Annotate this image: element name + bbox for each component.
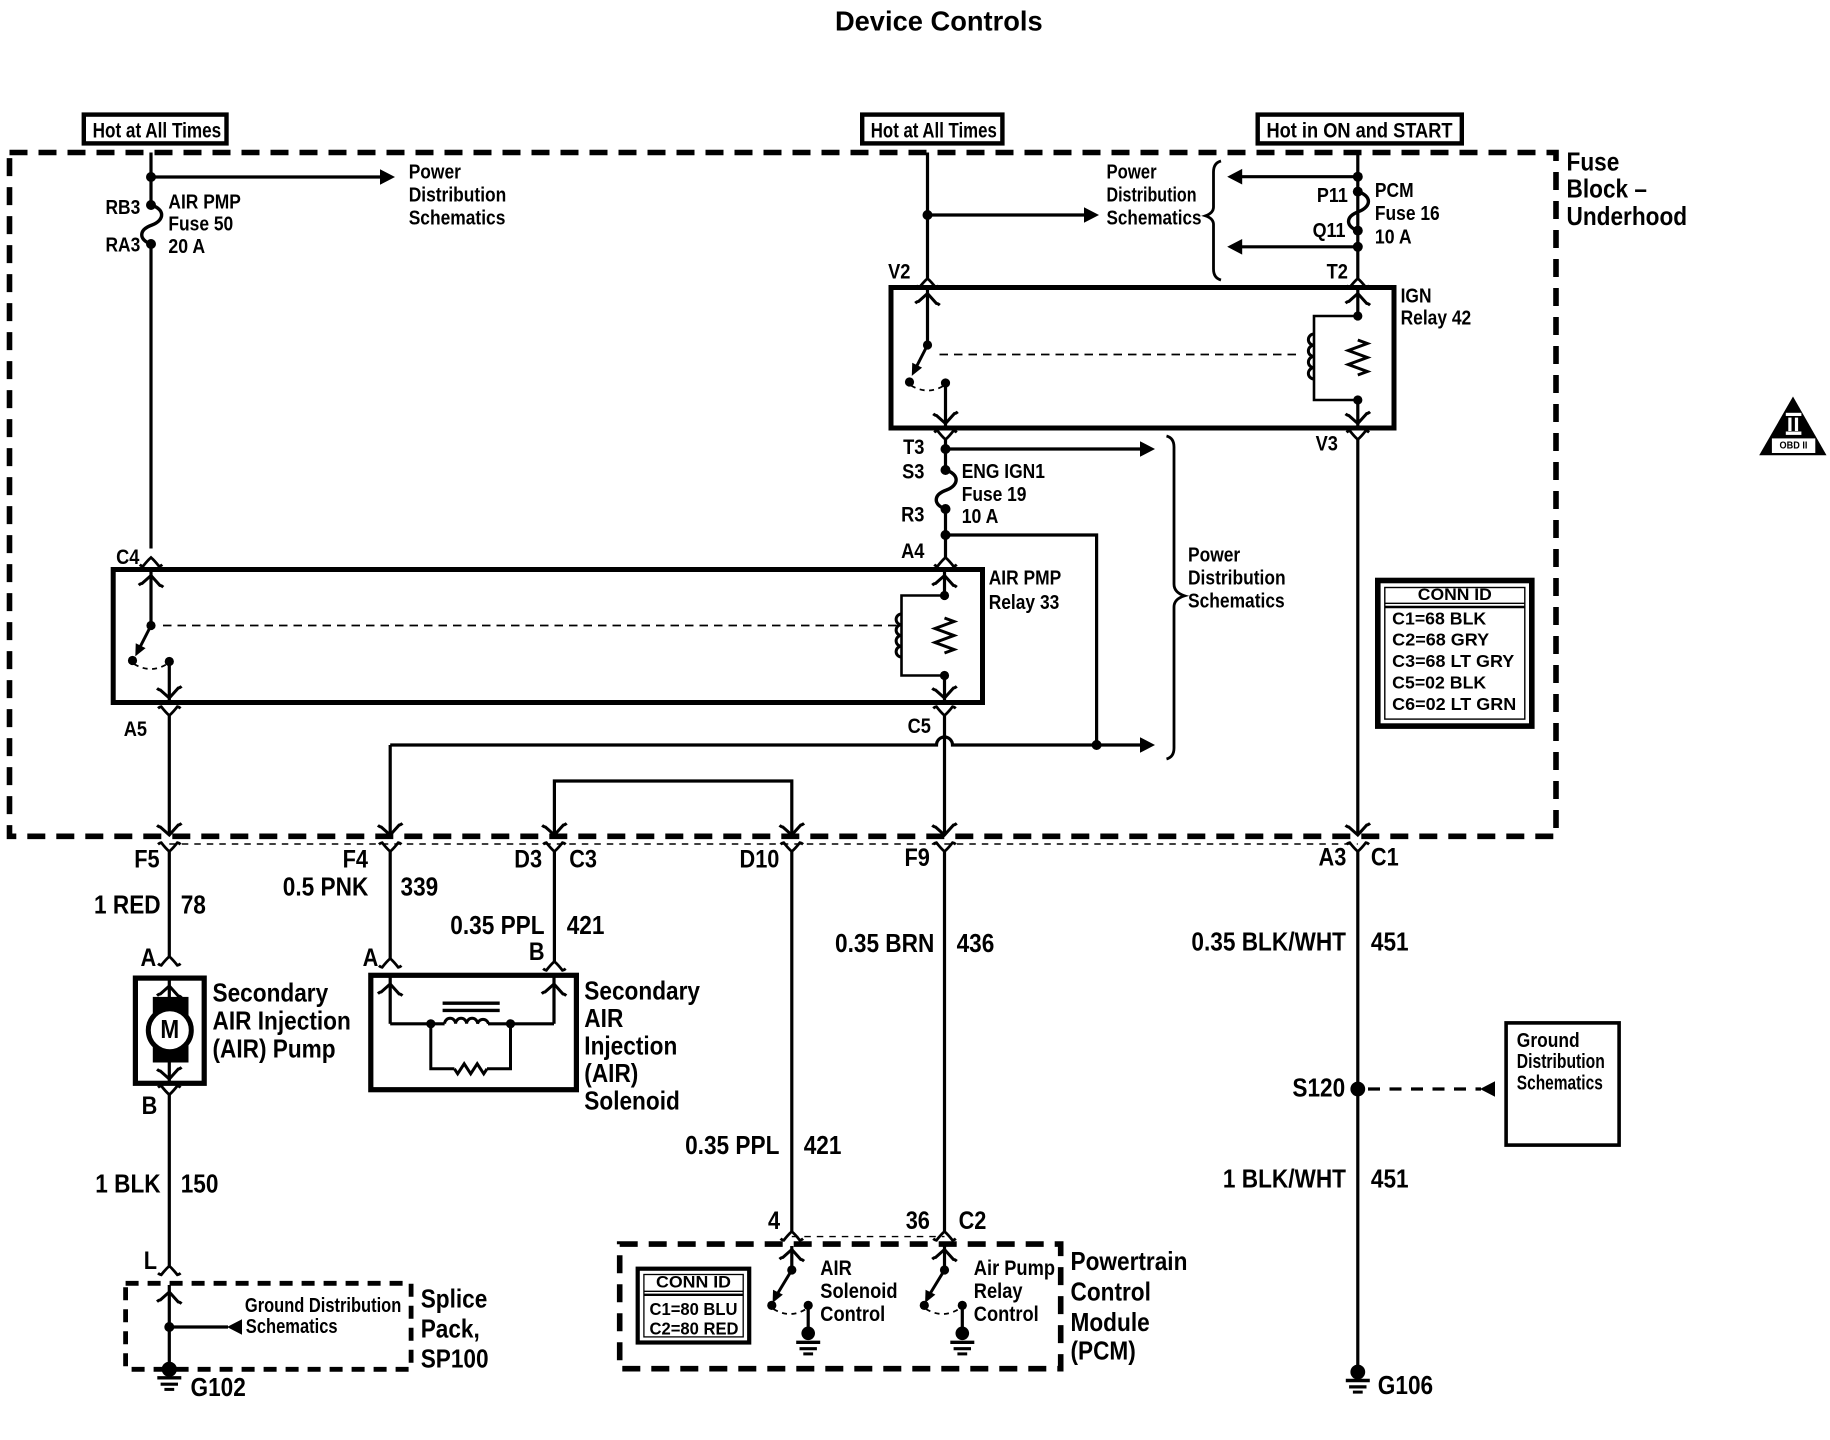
- arrow to Power Distribution Schematics upper: [1227, 169, 1358, 185]
- pin 4: [768, 1207, 803, 1240]
- svg-text:Distribution: Distribution: [409, 184, 507, 206]
- solenoid right lead: [488, 977, 566, 1024]
- solenoid coil: [445, 1018, 489, 1023]
- svg-text:A3: A3: [1319, 844, 1347, 872]
- svg-text:Pack,: Pack,: [421, 1314, 480, 1344]
- wire arrow to Power Distribution Schematics (top left): [151, 169, 395, 185]
- svg-text:SP100: SP100: [421, 1344, 489, 1374]
- svg-text:Distribution: Distribution: [1188, 568, 1286, 590]
- node S3: [902, 461, 950, 484]
- svg-text:IGN: IGN: [1401, 285, 1432, 307]
- wire V3 to A3: [1346, 440, 1371, 836]
- svg-text:B: B: [142, 1092, 158, 1120]
- svg-text:Device Controls: Device Controls: [835, 5, 1043, 36]
- svg-text:421: 421: [804, 1130, 842, 1160]
- wire RA3 to C4: [149, 244, 152, 549]
- relay 42 switch pole wire: [915, 290, 940, 345]
- wire C3 to solenoid B: [553, 852, 556, 962]
- splice arrow from ground distribution: [169, 1319, 242, 1335]
- wire Hot at All Times (middle) to V2: [926, 153, 929, 279]
- fuse block - underhood dashed border: [10, 153, 1557, 837]
- svg-text:Schematics: Schematics: [1517, 1073, 1603, 1095]
- node T3 junction: [941, 444, 951, 454]
- wire arrow to Power Distribution Schematics (middle): [928, 207, 1100, 223]
- connector interface line: [169, 843, 1358, 845]
- relay 33 coil loop: [902, 596, 945, 676]
- svg-text:Fuse 50: Fuse 50: [168, 214, 233, 236]
- label Secondary AIR Injection (AIR) Pump: [213, 978, 351, 1064]
- wire pump B to splice L: [168, 1095, 171, 1266]
- wire label 0.35 BLK/WHT 451: [1191, 927, 1408, 957]
- svg-text:451: 451: [1371, 927, 1409, 957]
- wire T3 down: [944, 440, 947, 471]
- pin L: [144, 1247, 181, 1275]
- svg-text:Schematics: Schematics: [246, 1316, 338, 1338]
- node P11: [1317, 185, 1363, 207]
- svg-text:0.35 BLK/WHT: 0.35 BLK/WHT: [1191, 927, 1346, 957]
- pin A5: [124, 707, 181, 741]
- pin B (solenoid): [529, 938, 566, 970]
- pin C4: [116, 546, 162, 569]
- relay 42 coil winding: [1308, 334, 1314, 379]
- svg-text:A: A: [141, 944, 157, 972]
- solenoid box: [371, 975, 577, 1089]
- pcm driver air pump relay control: [920, 1246, 975, 1354]
- svg-text:C1: C1: [1371, 844, 1399, 872]
- pcm driver AIR solenoid control: [767, 1246, 820, 1354]
- svg-text:V3: V3: [1316, 433, 1338, 456]
- relay 33 switch: [128, 621, 156, 665]
- pin B (pump): [142, 1086, 181, 1120]
- svg-text:OBD II: OBD II: [1780, 440, 1808, 452]
- relay 42 switch: [905, 340, 932, 386]
- svg-text:C3=68 LT GRY: C3=68 LT GRY: [1392, 651, 1514, 671]
- svg-text:Control: Control: [974, 1303, 1039, 1326]
- splice junction: [164, 1322, 174, 1332]
- svg-text:339: 339: [401, 871, 439, 901]
- svg-text:Fuse 19: Fuse 19: [962, 484, 1027, 506]
- label AIR PMP Relay 33: [989, 568, 1061, 614]
- svg-text:Schematics: Schematics: [1188, 591, 1285, 613]
- relay 42 switch output wire: [933, 383, 958, 426]
- relay box AIR PMP Relay 33: [113, 570, 982, 703]
- svg-text:C4: C4: [116, 546, 140, 569]
- svg-text:C6=02 LT GRN: C6=02 LT GRN: [1392, 694, 1516, 714]
- svg-text:CONN ID: CONN ID: [656, 1274, 731, 1292]
- svg-text:Secondary: Secondary: [584, 976, 700, 1006]
- svg-text:(AIR): (AIR): [584, 1058, 638, 1088]
- pin A3 C1: [1319, 843, 1399, 872]
- wire label 1 RED 78: [94, 890, 206, 920]
- wire F4 drop: [378, 745, 403, 836]
- label AIR Solenoid Control: [820, 1257, 897, 1326]
- svg-text:A: A: [363, 944, 379, 972]
- svg-text:A5: A5: [124, 718, 148, 741]
- relay 33 coil bottom node: [940, 671, 949, 680]
- brace power distribution (PCM fuse): [1206, 161, 1222, 280]
- conn id table (fuse block): [1378, 581, 1532, 727]
- relay 42 coil bottom node: [1353, 395, 1362, 404]
- node RA3: [106, 235, 157, 257]
- wire Hot in ON and START to PCM fuse: [1356, 153, 1359, 279]
- fuse F19 ENG IGN1 10A: [936, 470, 956, 509]
- svg-text:D3: D3: [514, 846, 542, 874]
- label Splice Pack SP100: [421, 1284, 489, 1374]
- wire F4 to solenoid A: [389, 852, 392, 959]
- svg-text:Fuse 16: Fuse 16: [1375, 203, 1440, 225]
- solenoid left lead: [378, 977, 445, 1024]
- svg-text:C2=80 RED: C2=80 RED: [650, 1318, 739, 1338]
- svg-text:C5=02 BLK: C5=02 BLK: [1392, 673, 1486, 693]
- svg-text:Air Pump: Air Pump: [974, 1257, 1055, 1280]
- fuse F50 AIR PMP 20A: [142, 205, 162, 244]
- svg-text:(PCM): (PCM): [1071, 1336, 1136, 1366]
- wire R3 to A4: [944, 509, 947, 558]
- arrow T3 to Power Distribution Schematics: [946, 441, 1156, 457]
- label Secondary AIR Injection (AIR) Solenoid: [584, 976, 700, 1116]
- splice node S120: [1292, 1073, 1365, 1103]
- arrow to Power Distribution Schematics lower: [1227, 239, 1358, 255]
- svg-text:Relay 33: Relay 33: [989, 592, 1060, 614]
- node Q11: [1313, 220, 1363, 242]
- svg-text:10 A: 10 A: [1375, 226, 1412, 248]
- pin A (solenoid): [363, 944, 402, 972]
- svg-text:R3: R3: [901, 504, 924, 527]
- svg-text:Power: Power: [1107, 161, 1157, 183]
- svg-text:Module: Module: [1071, 1307, 1150, 1337]
- svg-text:Control: Control: [1071, 1277, 1151, 1307]
- wire D10 arrow: [780, 823, 805, 835]
- svg-text:Relay: Relay: [974, 1280, 1023, 1303]
- svg-text:451: 451: [1371, 1164, 1409, 1194]
- wire A4 tap to distribution: [946, 535, 1097, 745]
- relay 42 switch dashed travel arc: [911, 378, 950, 390]
- svg-text:Hot in ON and START: Hot in ON and START: [1267, 119, 1453, 142]
- svg-text:0.35 PPL: 0.35 PPL: [450, 910, 544, 940]
- relay 42 coil wire T2-V3: [1346, 290, 1371, 426]
- wire F4 feed with hop over C5: [390, 737, 1140, 745]
- relay 33 switch pole wire: [139, 572, 164, 626]
- svg-text:F4: F4: [343, 846, 368, 874]
- svg-text:C1=80 BLU: C1=80 BLU: [650, 1299, 738, 1319]
- arrow into ground distribution box: [1480, 1081, 1495, 1097]
- svg-text:Injection: Injection: [584, 1031, 677, 1061]
- svg-text:D10: D10: [740, 846, 780, 874]
- svg-text:B: B: [529, 938, 545, 966]
- svg-text:0.5 PNK: 0.5 PNK: [283, 871, 369, 901]
- label box Hot at All Times (middle): [862, 115, 1002, 144]
- svg-text:AIR: AIR: [820, 1257, 852, 1280]
- ground G106: [1346, 1365, 1433, 1401]
- svg-text:CONN ID: CONN ID: [1418, 586, 1492, 604]
- svg-text:S3: S3: [902, 461, 924, 484]
- title Device Controls: [835, 5, 1043, 36]
- svg-text:0.35 BRN: 0.35 BRN: [835, 928, 934, 958]
- svg-text:AIR: AIR: [584, 1003, 623, 1033]
- motor element: [148, 980, 191, 1081]
- wire label 1 BLK 150: [95, 1169, 218, 1199]
- relay 42 coil resistor: [1348, 340, 1367, 375]
- pin F5: [134, 843, 180, 874]
- svg-text:Q11: Q11: [1313, 220, 1346, 242]
- svg-text:C1=68 BLK: C1=68 BLK: [1392, 608, 1486, 628]
- label IGN Relay 42: [1401, 285, 1472, 329]
- pin C5: [908, 707, 956, 738]
- motor box: [135, 978, 204, 1083]
- svg-text:78: 78: [181, 890, 206, 920]
- label PCM Fuse 16 10 A: [1375, 180, 1440, 248]
- svg-text:F9: F9: [905, 844, 930, 872]
- junction node Q11 below: [1353, 242, 1363, 252]
- svg-text:ENG IGN1: ENG IGN1: [962, 461, 1045, 483]
- wire C5 to F9: [932, 716, 957, 836]
- svg-text:36: 36: [906, 1207, 930, 1235]
- svg-text:Distribution: Distribution: [1107, 184, 1197, 206]
- arrow feed to Power Distribution Schematics: [1140, 737, 1155, 753]
- module box Powertrain Control Module dashed: [620, 1244, 1061, 1369]
- wire Hot at All Times to fuse 50: [149, 153, 152, 206]
- svg-text:AIR Injection: AIR Injection: [213, 1006, 351, 1036]
- relay 33 coil winding: [896, 614, 901, 657]
- pin V3: [1316, 431, 1370, 456]
- node R3: [901, 504, 950, 527]
- wire A3 to G106: [1356, 852, 1359, 1368]
- svg-text:Solenoid: Solenoid: [584, 1086, 680, 1116]
- relay 33 coil top node: [940, 591, 949, 600]
- svg-text:RA3: RA3: [106, 235, 141, 257]
- svg-text:Relay 42: Relay 42: [1401, 308, 1472, 330]
- label Air Pump Relay Control: [974, 1257, 1055, 1326]
- pin A4: [934, 558, 957, 567]
- svg-text:4: 4: [768, 1207, 780, 1235]
- label ENG IGN1 Fuse 19 10 A: [962, 461, 1045, 528]
- relay 42 coil top node: [1353, 311, 1362, 320]
- svg-text:C2=68 GRY: C2=68 GRY: [1392, 630, 1489, 650]
- svg-text:S120: S120: [1292, 1073, 1345, 1103]
- svg-text:Schematics: Schematics: [1107, 208, 1202, 230]
- relay 33 switch dashed travel arc: [134, 657, 174, 669]
- svg-text:Schematics: Schematics: [409, 208, 506, 230]
- svg-text:PCM: PCM: [1375, 180, 1414, 202]
- brace power distribution (right): [1167, 436, 1185, 759]
- svg-text:G106: G106: [1378, 1370, 1433, 1400]
- svg-text:T3: T3: [903, 436, 924, 459]
- wire label 0.35 BRN 436: [835, 928, 994, 958]
- svg-text:AIR PMP: AIR PMP: [989, 568, 1061, 590]
- pin V2: [888, 261, 939, 288]
- connector line PCM: [792, 1236, 945, 1238]
- pin F4: [343, 843, 402, 874]
- svg-text:Ground Distribution: Ground Distribution: [245, 1295, 401, 1317]
- svg-text:150: 150: [181, 1169, 219, 1199]
- svg-text:Distribution: Distribution: [1517, 1051, 1605, 1073]
- relay 33 switch output wire: [157, 662, 182, 701]
- svg-text:A4: A4: [901, 540, 925, 563]
- solenoid resistor: [454, 1064, 487, 1074]
- svg-text:Splice: Splice: [421, 1284, 488, 1314]
- svg-text:10 A: 10 A: [962, 506, 999, 528]
- svg-text:Fuse: Fuse: [1567, 147, 1620, 177]
- svg-text:421: 421: [567, 910, 605, 940]
- svg-text:1 BLK: 1 BLK: [95, 1169, 160, 1199]
- svg-text:Control: Control: [820, 1303, 885, 1326]
- relay box IGN Relay 42: [891, 288, 1394, 429]
- conn id table (PCM): [638, 1269, 750, 1343]
- svg-text:Block –: Block –: [1567, 174, 1648, 204]
- svg-text:Power: Power: [409, 161, 461, 183]
- reference box Ground Distribution Schematics: [1506, 1023, 1619, 1145]
- ground G102: [157, 1362, 246, 1402]
- dashed wire S120 to ground distribution: [1368, 1087, 1481, 1090]
- svg-text:Hot at All Times: Hot at All Times: [93, 119, 222, 142]
- relay 42 coil loop: [1314, 316, 1358, 400]
- svg-text:Power: Power: [1188, 544, 1240, 566]
- svg-text:G102: G102: [191, 1372, 246, 1402]
- svg-text:Solenoid: Solenoid: [820, 1280, 897, 1303]
- svg-text:Underhood: Underhood: [1567, 201, 1688, 231]
- label Powertrain Control Module (PCM): [1071, 1246, 1188, 1366]
- svg-text:AIR PMP: AIR PMP: [168, 192, 241, 214]
- junction node P11 column top: [1353, 172, 1363, 182]
- svg-text:Secondary: Secondary: [213, 978, 329, 1008]
- svg-text:T2: T2: [1327, 261, 1348, 284]
- svg-text:C3: C3: [569, 846, 597, 874]
- fuse F16 PCM 10A: [1349, 192, 1369, 231]
- svg-text:P11: P11: [1317, 185, 1348, 207]
- svg-text:Powertrain: Powertrain: [1071, 1246, 1188, 1276]
- solenoid resistor branch: [426, 1019, 515, 1069]
- pin T3: [903, 431, 957, 459]
- pin F9: [905, 843, 956, 872]
- junction node left: [146, 172, 156, 182]
- label box Hot in ON and START: [1258, 115, 1462, 144]
- wire F5 to pump: [168, 852, 171, 957]
- wire A5 to F5: [157, 716, 182, 836]
- wire jumper D3 to D10: [554, 781, 791, 834]
- svg-text:0.35 PPL: 0.35 PPL: [685, 1130, 779, 1160]
- icon OBD II: [1759, 397, 1826, 456]
- node feed junction: [1092, 740, 1102, 750]
- wire label 1 BLK/WHT 451: [1223, 1164, 1409, 1194]
- pin A (pump): [141, 944, 181, 972]
- svg-text:C2: C2: [959, 1207, 987, 1235]
- svg-text:L: L: [144, 1247, 157, 1275]
- wire label 0.35 PPL 421 (upper): [450, 910, 604, 940]
- wire D3 arrow: [542, 823, 567, 835]
- label Fuse Block - Underhood: [1567, 147, 1688, 231]
- label Ground Distribution Schematics (splice): [245, 1295, 401, 1338]
- svg-text:1 RED: 1 RED: [94, 890, 161, 920]
- svg-text:Ground: Ground: [1517, 1030, 1580, 1052]
- label Power Distribution Schematics (right): [1188, 544, 1286, 612]
- node A4 junction: [901, 530, 950, 563]
- svg-text:M: M: [160, 1014, 179, 1044]
- junction node V2 column: [923, 210, 933, 220]
- wire F9 to PCM pin 36: [943, 852, 946, 1232]
- svg-text:20 A: 20 A: [168, 236, 205, 258]
- splice wire: [157, 1285, 182, 1368]
- pin D3 C3: [514, 843, 597, 874]
- svg-text:F5: F5: [134, 846, 159, 874]
- svg-text:C5: C5: [908, 715, 932, 738]
- wire label 0.5 PNK 339: [283, 871, 438, 901]
- svg-text:RB3: RB3: [106, 197, 141, 219]
- relay 42 dashed axis: [940, 354, 1302, 356]
- svg-text:1 BLK/WHT: 1 BLK/WHT: [1223, 1164, 1346, 1194]
- label Power Distribution Schematics (middle): [1107, 161, 1202, 229]
- relay 33 dashed axis: [163, 625, 897, 627]
- label AIR PMP Fuse 50 20 A: [168, 192, 241, 259]
- svg-text:436: 436: [957, 928, 995, 958]
- svg-text:Hot at All Times: Hot at All Times: [871, 119, 997, 142]
- relay 33 coil resistor: [935, 618, 954, 653]
- pin 36 C2: [906, 1207, 987, 1240]
- solenoid core bars: [443, 1003, 500, 1010]
- label box Hot at All Times (left): [84, 115, 227, 144]
- relay 33 coil wire A4-C5: [932, 572, 957, 700]
- svg-text:(AIR) Pump: (AIR) Pump: [213, 1034, 336, 1064]
- splice pack dashed box: [126, 1283, 412, 1369]
- wire D10 to PCM pin 4: [790, 852, 793, 1232]
- node RB3: [106, 197, 157, 219]
- pin D10: [740, 843, 804, 874]
- pin T2: [1327, 261, 1370, 288]
- svg-text:V2: V2: [888, 261, 910, 284]
- label Power Distribution Schematics (top left): [409, 161, 507, 229]
- wire label 0.35 PPL 421 (lower): [685, 1130, 841, 1160]
